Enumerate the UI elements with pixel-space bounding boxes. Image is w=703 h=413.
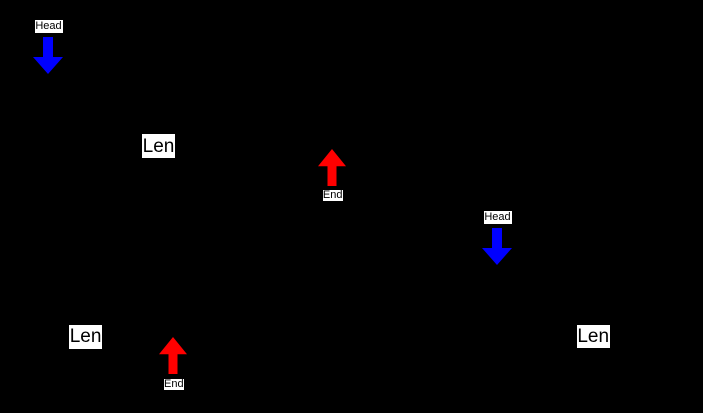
arrow End1 red up [318,149,346,186]
label Head (top-left pointer) [35,20,63,33]
arrow Head2 blue down [482,228,512,265]
label End (bottom pointer) [164,379,184,390]
arrow Head1 blue down [33,37,63,74]
label Len (bottom-left) [69,325,102,349]
label Len (upper) [142,134,175,158]
label Len (bottom-right) [577,325,610,348]
label End (upper pointer) [323,190,343,201]
label Head (middle-right pointer) [484,211,512,224]
arrow End2 red up [159,337,187,374]
